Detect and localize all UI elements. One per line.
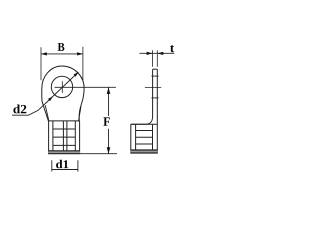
strip top cap xyxy=(153,68,158,70)
side barrel serration line 2 xyxy=(136,136,153,138)
dim B ext left xyxy=(40,47,42,80)
hole centerline horizontal (extension for F) xyxy=(55,86,116,88)
side barrel serration line 1 xyxy=(136,130,153,132)
d1 dim line xyxy=(52,169,78,171)
neck inner edge left xyxy=(45,105,49,121)
side barrel bottom flange fill xyxy=(131,150,158,153)
dim F line upper part xyxy=(108,87,110,116)
barrel outer wall left xyxy=(48,121,50,154)
dim B line xyxy=(41,53,83,55)
strip left line with bend into barrel top edge xyxy=(131,69,153,124)
hole edge tick top xyxy=(151,75,158,77)
label F xyxy=(103,117,109,125)
barrel bottom flange fill xyxy=(48,151,80,154)
barrel serration line 2 xyxy=(53,136,75,138)
palm outline xyxy=(42,66,84,121)
hole edge tick bottom xyxy=(151,97,158,99)
barrel seam line left xyxy=(62,121,64,154)
dim t arrow left (outside pointing inward) xyxy=(147,52,153,55)
dim t ext right xyxy=(156,50,158,67)
strip right line (flush with barrel right edge) xyxy=(156,69,158,153)
dim B arrow left xyxy=(41,52,47,55)
side barrel left inner xyxy=(135,124,137,150)
side barrel bottom flange lower edge xyxy=(131,152,158,154)
side centerline xyxy=(145,87,161,89)
label d1 xyxy=(56,160,68,169)
side barrel serration line 3 xyxy=(136,143,153,145)
dim t arrow right (outside pointing inward) xyxy=(157,52,163,55)
dim t ext left xyxy=(152,50,154,67)
F bottom extension line xyxy=(80,153,117,155)
barrel top edge xyxy=(49,120,80,122)
label d2 xyxy=(13,105,26,114)
side barrel right inner xyxy=(152,124,154,150)
hole d2 circle xyxy=(51,76,72,97)
barrel bottom flange lower edge xyxy=(48,153,80,155)
barrel bottom flange upper edge xyxy=(48,150,80,152)
dim d1 ext left xyxy=(51,160,53,171)
label t xyxy=(170,45,174,52)
dim F arrow bottom xyxy=(107,147,111,154)
side barrel left outer xyxy=(130,124,132,153)
side barrel top edge xyxy=(131,123,158,125)
t dim line xyxy=(140,52,175,54)
d2 leader arrow lower xyxy=(48,96,53,101)
dim B ext right xyxy=(82,47,84,81)
dim d1 ext right xyxy=(77,160,79,171)
barrel serration line 3 xyxy=(53,144,75,146)
dim F arrow top xyxy=(107,87,111,94)
d2 leader arrow upper xyxy=(74,72,79,77)
dim F line lower part xyxy=(108,129,110,154)
barrel outer wall right xyxy=(79,121,81,154)
side barrel bottom flange upper edge xyxy=(131,149,158,151)
barrel inner wall left xyxy=(52,121,54,154)
label B xyxy=(58,43,65,51)
dim B arrow right xyxy=(77,52,83,55)
d2 leader line xyxy=(12,72,78,115)
barrel seam line right xyxy=(66,121,68,154)
hole centerline vertical xyxy=(61,81,63,93)
barrel inner wall right xyxy=(74,121,76,154)
barrel serration line 1 xyxy=(53,128,75,130)
neck inner edge right xyxy=(79,107,82,121)
